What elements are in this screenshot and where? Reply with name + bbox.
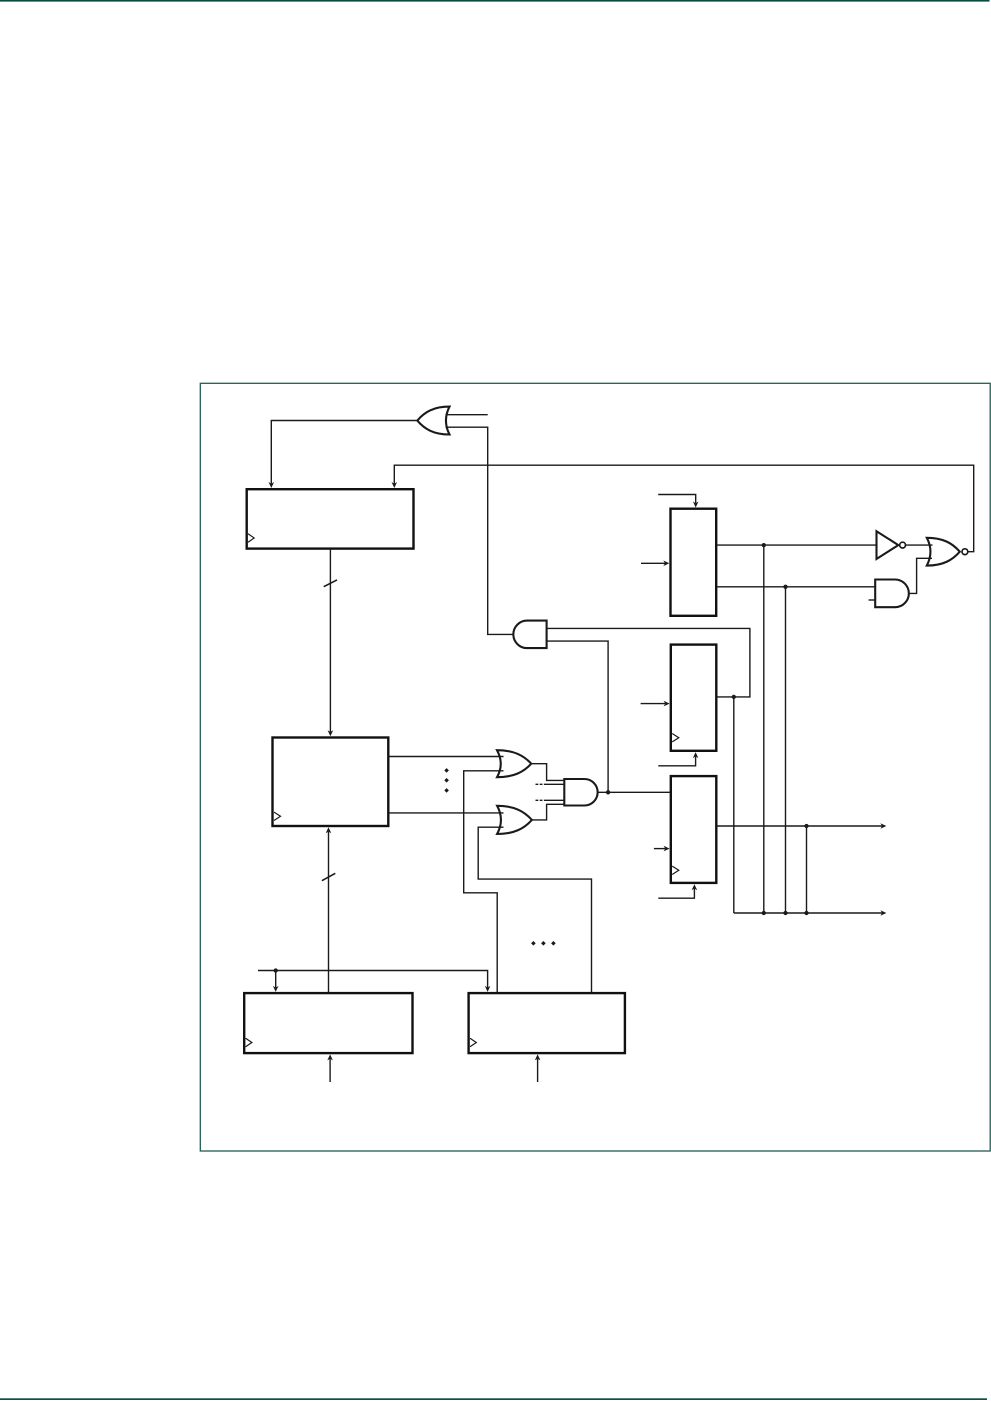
arrowhead into R2 top [693,502,699,508]
register R6 [469,993,625,1053]
wire inverter to NOR [906,544,933,546]
wire R3 left input [641,703,666,705]
register R3 [671,645,717,751]
junction R4 output at bus [804,911,808,915]
bus slash RB-R5 [322,873,335,880]
register R2 [671,509,717,616]
or-gate G1 [417,407,449,435]
wire G4 output to G5 [532,804,565,820]
and-gate G8 [875,580,909,608]
wire G2 lower input branch [547,641,609,792]
junction R2 Q2 [783,585,787,589]
arrowhead into R5 top [273,986,279,992]
wire R3 bottom entry [658,756,695,765]
inverter G6 [877,531,906,559]
or-gate G3 [497,750,531,777]
wire R4 bottom entry [658,889,694,899]
wire R2 output Q2 to G8 [716,586,875,588]
nor-gate G7 [927,538,968,566]
wire G3 output to G5 [531,764,565,781]
wire R5 bottom input [329,1059,331,1082]
arrowhead into R4 left [664,846,670,852]
clock chevron RB [274,812,281,820]
wire R2 Q1 branch down [763,545,765,913]
or-gate G4 [497,806,532,834]
junction R2 Q1 at bus [762,911,766,915]
wire G1 output to R1 [271,421,417,484]
wire G8 lower input stub [869,599,876,601]
register R4 [671,776,717,883]
wire G5 dashed input upper [536,783,565,785]
wire G8 output to NOR [909,558,932,593]
arrowhead into R5 bottom [327,1054,333,1060]
bus output lower [734,912,882,914]
wire G1 lower input to G2 output [446,427,514,634]
arrowhead into RB top [328,730,334,736]
and-gate G5 [564,779,597,806]
wire R2 left input [641,562,665,564]
bus R1 to RB [329,549,331,732]
wire branch into R5 top [275,971,277,988]
clock chevron R5 [246,1038,252,1046]
arrowhead into R3 bottom [693,752,699,758]
wire bottom clock distribution [258,971,488,988]
wire R4 output branch down [806,826,808,913]
junction R2 Q2 at bus [783,911,787,915]
clock chevron R3 [672,734,679,742]
wire R3 output branch down [733,697,735,913]
register R5 [244,993,412,1053]
header rule [0,0,990,2]
junction clock distribution [274,968,278,972]
clock chevron R4 [672,866,679,874]
arrowhead into R1 top left [269,482,275,488]
junction R2 Q1 [762,543,766,547]
wire RB upper output [388,756,503,758]
wire G2 upper input to R3 output [547,628,750,697]
arrowhead into R2 left [663,561,669,567]
arrowhead into R3 left [664,701,670,707]
junction G5 output [606,790,610,794]
arrowhead into R1 top right [392,482,398,488]
wire R4 output [716,825,882,827]
wire G5 dashed input lower [536,799,565,801]
ellipsis vertical [444,768,449,793]
wire R6 bottom input [537,1059,539,1082]
wire RB lower output [388,812,503,814]
arrowhead output upper [880,823,886,829]
junction R3 output [732,695,736,699]
register R1 [247,489,414,548]
and-gate G2 [513,621,546,649]
clock chevron R1 [248,534,254,542]
ellipsis horizontal [531,941,556,946]
clock chevron R6 [470,1038,476,1046]
footer rule [0,1398,987,1400]
wire R4 left input [654,848,665,850]
arrowhead into R6 bottom [535,1054,541,1060]
bus RB to R5 [328,832,330,994]
register RB [273,738,389,827]
wire G1 upper input stub [446,414,488,416]
arrowhead output lower [880,910,886,916]
figure frame [200,383,990,1151]
wire NOR feedback to R1 [394,465,973,552]
junction R4 output [804,824,808,828]
bus slash R1-RB [324,580,337,587]
wire G5 output to R4 [598,791,671,793]
wire G4 lower input from R6 [478,827,591,992]
wire R2 top entry [658,495,696,504]
wire R2 output Q1 to inverter [716,544,876,546]
arrowhead into R6 top [485,986,491,992]
arrowhead into RB bottom [326,827,332,833]
wire R2 Q2 branch down [785,587,787,913]
arrowhead into R4 bottom [692,884,698,890]
wire G3 lower input from R6 [464,771,504,992]
